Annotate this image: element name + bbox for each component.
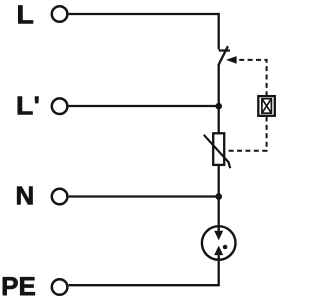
label N [17,187,32,205]
GDT top electrode arrow [214,231,223,241]
switch blade (thermal disconnector) [218,46,228,65]
indicator box outer [258,96,275,116]
label L [18,5,33,23]
wire L to top-right corner [69,14,219,49]
varistor body [213,133,224,165]
switch fixed contact bar [219,49,230,51]
wire N [69,195,219,197]
varistor diagonal stroke [204,135,230,168]
node N junction [215,193,222,200]
dashed link arrow to indicator box [239,60,266,96]
wire GDT to PE corner [69,255,219,286]
indicator box inner [262,99,272,114]
dashed link box to varistor [225,117,266,151]
GDT bottom electrode arrow [214,246,223,256]
wire varistor to N node [218,165,220,197]
wire N node into GDT [218,197,220,232]
terminal N [52,189,68,205]
terminal L [52,6,68,22]
terminal L' [52,98,68,114]
wire switch to varistor [218,64,220,134]
label L' [18,97,33,115]
node L' junction [215,103,222,110]
disconnect indicator arrow [226,56,237,64]
gas discharge tube circle [202,226,236,260]
GDT gas-filled dot [223,245,228,250]
label PE [3,277,35,295]
indicator box X mark [262,99,272,114]
wire L' [69,105,219,107]
terminal PE [52,279,68,295]
label L' apostrophe [35,97,38,103]
